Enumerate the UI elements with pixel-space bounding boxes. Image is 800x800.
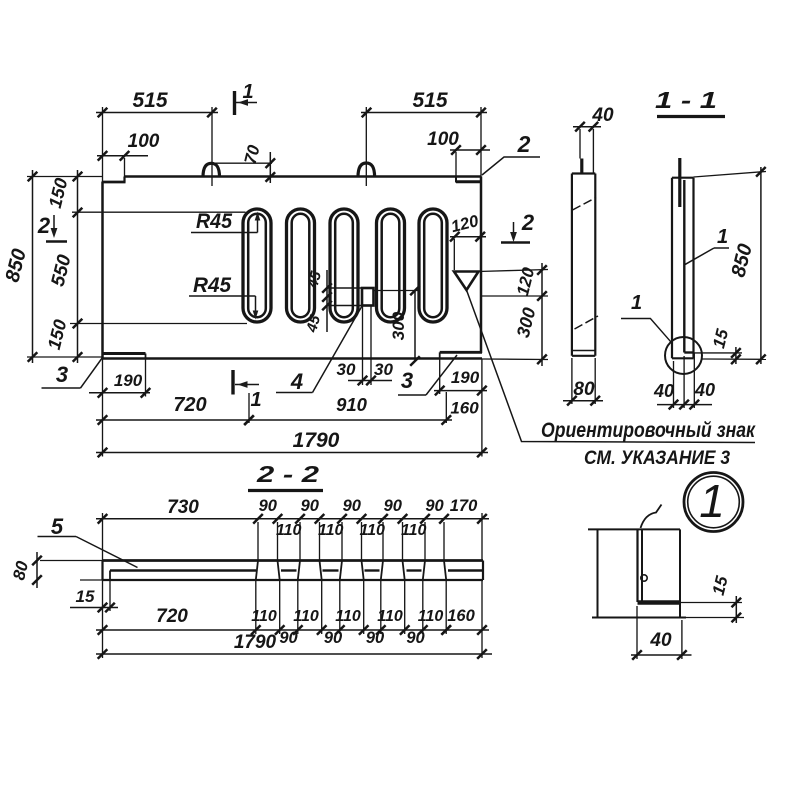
svg-text:850: 850 xyxy=(727,242,756,280)
dim 300 line xyxy=(414,291,416,362)
left extension lines xyxy=(27,176,103,178)
section 1-1 rebar stub xyxy=(678,158,681,207)
bottom-left notch xyxy=(103,352,146,355)
right side dim line 120/300 xyxy=(541,263,543,366)
top-left notch xyxy=(102,181,126,184)
svg-text:3: 3 xyxy=(56,362,68,387)
detail corner view top edge xyxy=(588,528,680,530)
svg-text:90: 90 xyxy=(366,629,385,647)
2-2 inner flange line segments xyxy=(110,569,256,571)
2-2 slot taper lines xyxy=(256,561,258,581)
svg-text:110: 110 xyxy=(335,608,361,625)
lifting lug right xyxy=(358,163,375,177)
item 4 plate square xyxy=(362,288,374,306)
svg-text:45: 45 xyxy=(304,269,325,291)
dim 190 bottom left xyxy=(89,392,150,394)
top dim 100 left xyxy=(97,155,148,157)
svg-text:110: 110 xyxy=(418,608,444,625)
svg-text:90: 90 xyxy=(384,497,403,515)
svg-text:СМ. УКАЗАНИЕ 3: СМ. УКАЗАНИЕ 3 xyxy=(584,447,730,469)
detail small weld circle xyxy=(641,575,647,581)
svg-text:110: 110 xyxy=(359,522,385,539)
top dim 100 right xyxy=(450,149,490,151)
svg-text:1: 1 xyxy=(242,81,253,103)
bottom dim 1790 xyxy=(96,452,488,454)
svg-text:90: 90 xyxy=(279,629,298,647)
svg-text:1: 1 xyxy=(631,292,642,314)
dim 45 45 vertical line xyxy=(326,270,328,332)
svg-text:1: 1 xyxy=(699,475,725,527)
section marker 1 top xyxy=(233,91,236,115)
top-right notch plate item2 xyxy=(456,180,482,183)
svg-text:45: 45 xyxy=(303,313,324,335)
svg-text:720: 720 xyxy=(173,394,206,416)
2-2 top dim row extensions xyxy=(102,513,104,561)
svg-text:515: 515 xyxy=(132,89,167,112)
svg-text:2: 2 xyxy=(37,213,51,238)
svg-text:160: 160 xyxy=(447,607,475,625)
svg-text:90: 90 xyxy=(324,629,343,647)
detail curved arrow xyxy=(641,505,662,529)
svg-text:40: 40 xyxy=(649,630,672,651)
svg-text:2 - 2: 2 - 2 xyxy=(256,461,320,487)
svg-text:15: 15 xyxy=(76,587,95,606)
svg-text:730: 730 xyxy=(167,497,199,518)
svg-text:Ориентировочный знак: Ориентировочный знак xyxy=(541,419,756,442)
2-2 bar left end xyxy=(101,561,103,581)
svg-text:515: 515 xyxy=(412,89,447,112)
svg-text:40: 40 xyxy=(694,380,715,400)
panel right edge xyxy=(480,177,483,354)
2-2 top dim line 730/90/170 xyxy=(96,518,489,520)
slot at x=433 inner xyxy=(424,214,442,317)
svg-text:2: 2 xyxy=(517,131,531,157)
side view break mark lower xyxy=(575,316,599,329)
svg-text:R45: R45 xyxy=(193,274,231,297)
svg-text:910: 910 xyxy=(336,394,368,415)
svg-text:150: 150 xyxy=(44,318,71,352)
slot at x=390.5 outer xyxy=(377,209,405,322)
slot at x=433 outer xyxy=(419,209,447,322)
slot at x=257 inner xyxy=(248,214,266,317)
svg-text:300: 300 xyxy=(389,311,408,340)
dim 30 30 extension lines xyxy=(362,306,364,385)
svg-text:80: 80 xyxy=(9,559,32,582)
svg-text:1790: 1790 xyxy=(293,429,340,452)
dim 80 side view bottom xyxy=(563,400,603,402)
svg-text:110: 110 xyxy=(276,522,302,539)
detail 1 balloon inner circle xyxy=(688,476,740,528)
svg-text:15: 15 xyxy=(709,574,732,597)
slot at x=344 outer xyxy=(330,209,358,322)
side view break mark upper xyxy=(573,198,597,211)
svg-text:2: 2 xyxy=(521,210,535,235)
svg-text:90: 90 xyxy=(259,497,278,515)
bottom dim line 720/910/160 xyxy=(96,419,452,421)
svg-text:30: 30 xyxy=(337,360,356,379)
item 2 leader top right xyxy=(482,157,540,175)
dim 300 (plate to bottom) extension xyxy=(374,290,421,292)
detail steel sheet foot xyxy=(638,600,681,605)
svg-text:110: 110 xyxy=(401,522,427,539)
right side extension lines xyxy=(479,270,549,272)
leader to item 4 xyxy=(313,306,363,393)
svg-text:40: 40 xyxy=(653,381,674,401)
detail circle on corner xyxy=(665,337,702,374)
svg-text:1790: 1790 xyxy=(234,632,277,653)
svg-text:3: 3 xyxy=(401,368,413,393)
detail dim 40 xyxy=(636,606,638,659)
2-2 bar step 15 xyxy=(109,571,111,581)
dim 850 section xyxy=(694,172,767,178)
section 1-1 steel sheet foot xyxy=(684,351,693,353)
svg-text:120: 120 xyxy=(449,212,481,236)
top dim 515 left xyxy=(96,112,218,114)
main plan view: panel left edge xyxy=(101,182,104,359)
svg-text:110: 110 xyxy=(377,608,403,625)
detail dim 15 xyxy=(680,602,742,604)
detail steel sheet verticals xyxy=(636,529,638,602)
dim 40 side view top xyxy=(573,126,601,128)
svg-text:90: 90 xyxy=(425,497,444,515)
panel bottom edge xyxy=(103,357,483,360)
left dim line 850 xyxy=(32,170,34,363)
dim 190 bottom right xyxy=(434,390,487,392)
svg-text:1 - 1: 1 - 1 xyxy=(655,87,717,113)
2-2 bar top edge xyxy=(103,559,484,562)
dim 120 horizontal line xyxy=(450,236,486,238)
dim 30 30 line xyxy=(348,380,392,382)
svg-text:110: 110 xyxy=(318,522,344,539)
svg-text:170: 170 xyxy=(450,497,478,515)
detail 1 balloon outer circle xyxy=(684,473,743,532)
svg-text:40: 40 xyxy=(591,105,614,126)
detail corner view left edge xyxy=(597,529,599,617)
panel top edge xyxy=(125,175,482,178)
svg-text:100: 100 xyxy=(427,129,459,150)
slot at x=300.5 outer xyxy=(287,209,315,322)
detail corner view bottom edge xyxy=(592,617,686,619)
svg-text:160: 160 xyxy=(450,399,479,418)
section marker 1 bottom xyxy=(231,370,234,395)
svg-text:100: 100 xyxy=(128,131,160,152)
section 1-1 steel sheet item1 vertical xyxy=(683,180,685,353)
dim 80 left xyxy=(40,560,103,562)
svg-text:720: 720 xyxy=(156,606,188,627)
2-2 dim 1790 xyxy=(96,653,492,655)
dim 120 horizontal (mark to edge) extension xyxy=(453,239,455,270)
bottom-right notch xyxy=(440,351,482,354)
left dim line 150/550/150 xyxy=(77,170,79,363)
orientation mark triangle xyxy=(454,272,479,291)
svg-text:190: 190 xyxy=(114,371,143,390)
svg-text:110: 110 xyxy=(251,608,277,625)
svg-text:850: 850 xyxy=(1,247,30,285)
svg-text:80: 80 xyxy=(573,379,595,400)
2-2 bar bottom edge xyxy=(103,579,484,581)
section 1-1 outline xyxy=(671,178,673,359)
top dim 515 right xyxy=(361,112,487,114)
svg-text:90: 90 xyxy=(406,629,425,647)
slot at x=390.5 inner xyxy=(382,214,400,317)
side view lug tick xyxy=(580,159,583,174)
svg-text:300: 300 xyxy=(513,306,540,340)
side view bar outline xyxy=(572,172,595,174)
dim 40 40 section bottom xyxy=(657,404,712,406)
svg-text:15: 15 xyxy=(709,327,732,350)
svg-text:150: 150 xyxy=(45,176,72,210)
dim 15 section xyxy=(694,352,742,354)
svg-text:1: 1 xyxy=(717,226,728,248)
svg-text:190: 190 xyxy=(451,368,480,387)
2-2 bar right end xyxy=(482,561,484,581)
dim 15 left end xyxy=(109,580,111,611)
svg-text:R45: R45 xyxy=(196,210,232,233)
svg-text:90: 90 xyxy=(301,497,320,515)
svg-text:4: 4 xyxy=(290,369,303,394)
2-2 bottom dim line 720/110/160 xyxy=(96,629,489,631)
svg-text:550: 550 xyxy=(48,252,76,288)
top extension lines xyxy=(102,107,104,182)
dim 70 lug height xyxy=(212,162,273,164)
svg-text:110: 110 xyxy=(293,608,319,625)
svg-text:90: 90 xyxy=(343,497,362,515)
svg-text:5: 5 xyxy=(51,514,64,539)
slot at x=257 outer xyxy=(243,209,271,322)
svg-text:30: 30 xyxy=(374,360,393,379)
slot at x=300.5 inner xyxy=(292,214,310,317)
side view inner bottom line xyxy=(572,350,595,352)
svg-text:1: 1 xyxy=(250,389,261,411)
item 4 anchor plate band xyxy=(327,287,362,289)
detail corner view right edge xyxy=(679,529,681,617)
orientation mark leader xyxy=(467,290,756,443)
lifting lug left xyxy=(203,163,220,177)
slot at x=344 inner xyxy=(335,214,353,317)
2-2 bottom extensions xyxy=(102,580,104,658)
